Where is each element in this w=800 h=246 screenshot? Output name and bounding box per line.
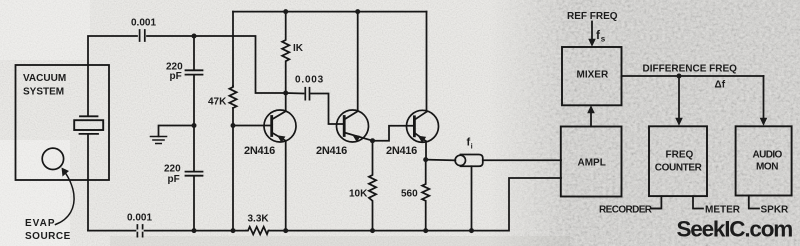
- REF FREQ arrow: [591, 22, 593, 41]
- transistor Q3 circle: [407, 110, 439, 142]
- recorder dash: [651, 208, 662, 210]
- node top A: [192, 34, 197, 39]
- capacitor C1 0.001 top plates: [140, 30, 145, 41]
- meter stub: [693, 196, 703, 208]
- node Q2 collector rail: [355, 9, 360, 14]
- svg-text:10K: 10K: [349, 188, 368, 199]
- AUDIO MON box: [736, 126, 792, 195]
- node rail 560: [423, 228, 428, 233]
- node rail 10K: [370, 228, 375, 233]
- svg-text:pF: pF: [168, 174, 180, 185]
- transistor Q2 base bar: [343, 117, 346, 136]
- svg-text:METER: METER: [705, 205, 741, 216]
- transistor Q1 emitter arrow (PNP): [277, 135, 285, 143]
- svg-text:0.001: 0.001: [131, 17, 156, 28]
- arrow AMPL to MIXER: [590, 112, 592, 127]
- coax connector body: [461, 155, 483, 167]
- transistor Q2 circle: [337, 110, 369, 142]
- capacitor C5 0.003 plates: [305, 88, 309, 100]
- svg-text:IK: IK: [293, 43, 304, 54]
- svg-text:47K: 47K: [208, 97, 227, 108]
- transistor Q1 base bar: [270, 117, 273, 136]
- wire 220pF chain: [193, 36, 195, 231]
- node rail 220pF: [192, 228, 197, 233]
- svg-text:560: 560: [401, 188, 418, 199]
- svg-text:pF: pF: [170, 71, 182, 82]
- FREQ COUNTER box: [649, 126, 707, 196]
- resistor R6 560: [422, 160, 429, 231]
- AMPL box: [561, 127, 622, 197]
- svg-text:RECORDER: RECORDER: [599, 204, 653, 215]
- wire crystal riser top: [88, 36, 137, 116]
- transistor Q3 base bar: [413, 117, 416, 136]
- svg-text:VACUUM: VACUUM: [23, 73, 66, 84]
- arrow to freq counter: [678, 76, 680, 119]
- svg-text:s: s: [601, 35, 606, 44]
- transistor Q3 emitter arrow (PNP): [418, 136, 426, 144]
- svg-text:AMPL: AMPL: [578, 157, 606, 168]
- capacitor C4 220pF plates: [186, 172, 203, 176]
- capacitor C2 0.001 bottom plates: [137, 225, 142, 237]
- wire C1 to node A: [147, 35, 194, 37]
- svg-text:2N416: 2N416: [316, 145, 347, 157]
- arrowhead evap: [62, 168, 70, 177]
- svg-text:AUDIO: AUDIO: [753, 149, 783, 160]
- ground stub: [159, 126, 195, 137]
- evap arrow curve: [56, 171, 75, 225]
- node Q1 base: [231, 123, 236, 128]
- svg-text:SPKR: SPKR: [761, 205, 790, 216]
- recorder stub: [652, 196, 662, 208]
- transistor Q2 collector: [344, 12, 358, 120]
- MIXER box: [562, 47, 622, 105]
- resistor R1 47K: [229, 86, 236, 108]
- evap source circle: [42, 148, 63, 169]
- bottom rail: [88, 178, 561, 231]
- svg-text:2N416: 2N416: [386, 145, 417, 157]
- coax shield stub to ground rail: [471, 166, 473, 230]
- svg-text:COUNTER: COUNTER: [655, 162, 703, 173]
- svg-text:SOURCE: SOURCE: [25, 231, 71, 242]
- node ground tap: [192, 123, 197, 128]
- node Q1 collector: [283, 91, 288, 96]
- difference freq line: [622, 75, 764, 77]
- transistor Q2 emitter: [344, 133, 372, 141]
- svg-text:0.001: 0.001: [127, 212, 152, 223]
- wire Q1 base: [233, 125, 272, 127]
- svg-text:i: i: [471, 142, 473, 151]
- transistor Q3 collector: [414, 12, 426, 120]
- arrowhead ref freq: [588, 39, 596, 47]
- wire 0.003 to Q2 base: [311, 94, 344, 125]
- arrowhead to freq counter: [675, 118, 683, 126]
- capacitor C2 wire gap mask: [137, 230, 142, 232]
- svg-text:EVAP: EVAP: [25, 218, 56, 229]
- arrow to audio mon: [763, 76, 765, 119]
- spkr stub: [749, 196, 759, 209]
- transistor Q1 collector: [272, 93, 286, 120]
- wire node A to Q1 collector node: [194, 36, 286, 93]
- svg-text:REF FREQ: REF FREQ: [567, 11, 618, 22]
- resistor R5 10K: [369, 141, 376, 231]
- svg-text:SYSTEM: SYSTEM: [23, 87, 64, 98]
- node 1K top: [283, 9, 288, 14]
- arrowhead ampl to mixer: [587, 105, 595, 113]
- wire crystal bottom to bottom rail: [87, 134, 89, 231]
- vacuum system box: [16, 65, 110, 180]
- svg-text:3.3K: 3.3K: [248, 214, 270, 225]
- arrowhead to audio mon: [760, 118, 768, 126]
- node rail coax shield: [469, 228, 474, 233]
- svg-text:DIFFERENCE FREQ: DIFFERENCE FREQ: [643, 63, 738, 74]
- node rail Q1 emitter: [283, 228, 288, 233]
- node Q3 emitter: [423, 157, 428, 162]
- wire Q1 node to 0.003: [286, 92, 304, 95]
- transistor Q3 emitter: [414, 133, 426, 160]
- svg-text:MON: MON: [756, 162, 778, 173]
- node rail divider: [231, 228, 236, 233]
- node Q2 emitter: [370, 138, 375, 143]
- transistor Q1 circle: [264, 110, 296, 142]
- wire Q3 emitter to coax: [426, 159, 455, 162]
- crystal Y1 top plate: [80, 115, 98, 117]
- crystal Y1 bottom plate: [80, 133, 99, 135]
- crystal Y1 body: [74, 120, 103, 130]
- svg-text:0.003: 0.003: [295, 74, 324, 85]
- capacitor C3 220pF plates: [186, 70, 203, 74]
- wire 47K divider vertical: [232, 12, 234, 231]
- wire coax to AMPL: [483, 159, 561, 161]
- svg-text:FREQ: FREQ: [666, 149, 694, 160]
- wire Q2 emitter to Q3 base: [373, 126, 415, 141]
- svg-text:Δf: Δf: [715, 80, 726, 91]
- svg-text:2N416: 2N416: [244, 145, 275, 157]
- transistor Q1 emitter: [272, 133, 286, 231]
- node difference split: [677, 74, 682, 79]
- ground symbol: [151, 137, 167, 144]
- svg-text:SeekIC.com: SeekIC.com: [677, 217, 793, 242]
- coax connector circle: [455, 155, 465, 165]
- top rail: [233, 11, 427, 13]
- resistor R2 1K: [282, 12, 289, 93]
- resistor R4 3.3K horizontal: [246, 227, 269, 235]
- svg-text:MIXER: MIXER: [577, 69, 609, 80]
- transistor Q2 emitter arrow (PNP): [352, 134, 360, 142]
